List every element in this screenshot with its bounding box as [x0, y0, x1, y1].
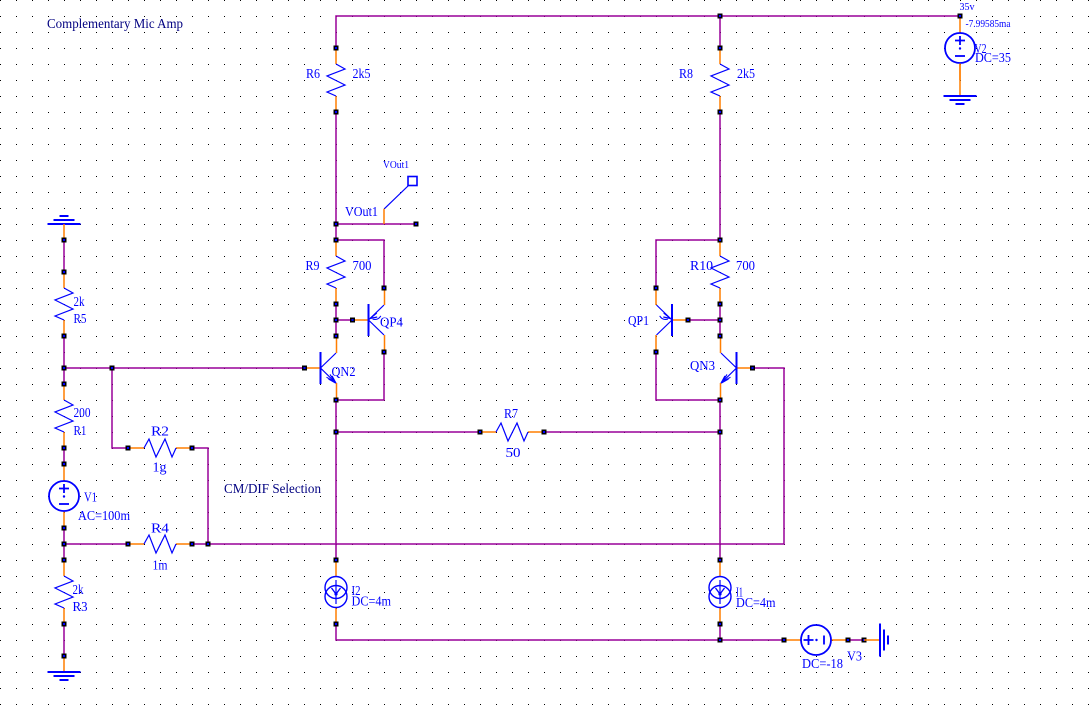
svg-text:R10: R10 — [690, 258, 713, 273]
pin R9.2 — [334, 302, 339, 307]
junction top bus / R8 — [718, 14, 723, 19]
pin R8.1 — [718, 46, 723, 51]
wire R8 bottom to R10 top — [719, 112, 721, 240]
svg-text:DC=4m: DC=4m — [352, 594, 392, 609]
wire bottom bus I2 to V3 — [336, 624, 784, 640]
resistor R7 body — [480, 423, 544, 441]
transistor QN2 (NPN) — [305, 336, 337, 400]
svg-text:R7: R7 — [504, 406, 518, 421]
junction VOut1 tap — [334, 222, 339, 227]
svg-text:QN2: QN2 — [332, 364, 356, 379]
svg-text:Complementary Mic Amp: Complementary Mic Amp — [47, 16, 183, 31]
pin VOut1 wire end — [414, 222, 419, 227]
wire QP1 base to node — [688, 319, 720, 321]
transistor QP4 (PNP) — [353, 288, 385, 352]
wire R3 bottom to ground — [63, 624, 65, 656]
pin R1.2 — [62, 446, 67, 451]
junction bottom bus / I1 — [718, 638, 723, 643]
junction R5/R1 node — [62, 366, 67, 371]
wire VOut1 tap — [336, 223, 416, 225]
pin ground right — [862, 638, 867, 643]
junction QP1 base node — [718, 318, 723, 323]
voltage source V2 symbol — [945, 16, 975, 80]
svg-text:VOut1: VOut1 — [345, 204, 378, 219]
svg-text:R6: R6 — [306, 66, 320, 81]
svg-text:R4: R4 — [151, 521, 169, 536]
wire R1 bottom to V1 plus — [63, 448, 65, 464]
svg-text:AC=100m: AC=100m — [78, 508, 130, 523]
pin QP1.E — [654, 286, 659, 291]
svg-text:1g: 1g — [153, 460, 167, 475]
voltage source V1 symbol — [49, 464, 79, 528]
resistor R4 body — [128, 535, 192, 553]
pin R4.2 — [190, 542, 195, 547]
wire R7 right to node B — [544, 431, 720, 433]
V2 lead to ground — [959, 64, 961, 97]
pin R9.1 — [334, 238, 339, 243]
pin R3.2 — [62, 622, 67, 627]
svg-text:R2: R2 — [151, 424, 169, 439]
svg-text:VOut1: VOut1 — [383, 160, 409, 171]
wire V3 minus to ground pin — [848, 639, 864, 641]
transistor QP1 (PNP) — [656, 288, 688, 352]
resistor R5 body — [55, 272, 73, 336]
wire R4 node to QN3 base — [208, 368, 784, 544]
pin QN2.B — [302, 366, 307, 371]
transistor QN3 (NPN) — [721, 336, 753, 400]
pin R7.1 — [478, 430, 483, 435]
junction top bus / V2 — [958, 14, 963, 19]
svg-text:2k: 2k — [73, 582, 84, 597]
junction R9 top — [334, 238, 339, 243]
pin V1.+ — [62, 462, 67, 467]
junction QN3 emitter node — [718, 398, 723, 403]
wire top bus to R8 top — [719, 16, 721, 48]
junction node B — [718, 430, 723, 435]
pin R7.2 — [542, 430, 547, 435]
junction V1/R4/R3 node — [62, 542, 67, 547]
junction R4/R2 node — [206, 542, 211, 547]
pin QP1.C — [654, 350, 659, 355]
wire R10-top node to QP1 emitter — [656, 240, 720, 288]
ground at V2 — [944, 96, 977, 104]
pin QN2.C — [334, 334, 339, 339]
pin QN3.B — [750, 366, 755, 371]
pin R3.1 — [62, 558, 67, 563]
wire x=336 R6 bottom to R9 top — [335, 112, 337, 240]
wire R2 right drop — [192, 448, 208, 544]
ground top-left lead — [63, 224, 65, 240]
svg-text:1m: 1m — [153, 558, 168, 573]
svg-text:700: 700 — [736, 258, 755, 273]
pin R2.2 — [190, 446, 195, 451]
wire R4 right to junction — [192, 543, 208, 545]
resistor R6 body — [327, 48, 345, 112]
svg-text:CM/DIF Selection: CM/DIF Selection — [224, 481, 321, 496]
pin R6.2 — [334, 110, 339, 115]
svg-text:QP1: QP1 — [628, 313, 649, 328]
svg-text:200: 200 — [74, 405, 91, 420]
pin V1.- — [62, 526, 67, 531]
svg-text:2k5: 2k5 — [737, 66, 755, 81]
svg-text:DC=-18: DC=-18 — [802, 656, 843, 671]
ground lead right of V3 — [864, 639, 880, 641]
svg-text:DC=35: DC=35 — [975, 50, 1011, 65]
pin V2.+ — [958, 14, 963, 19]
resistor R3 body — [55, 560, 73, 624]
junction R2 tap — [110, 366, 115, 371]
wire R9-top node to QP4 emitter — [336, 240, 384, 288]
pin R8.2 — [718, 110, 723, 115]
current source I1 symbol — [709, 560, 731, 624]
resistor R2 body — [128, 439, 192, 457]
pin V3.+ — [782, 638, 787, 643]
current source I2 symbol — [325, 560, 347, 624]
wire QN2 emitter node down to I2 — [335, 400, 337, 560]
wire QN3 emitter node down to I1 — [719, 400, 721, 560]
ground bottom left — [48, 672, 81, 680]
wire V1 minus to R3 top — [63, 528, 65, 560]
voltage source V3 symbol — [784, 625, 848, 655]
junction QP4 base node — [334, 318, 339, 323]
svg-text:R5: R5 — [74, 311, 87, 326]
wire V1 node to R4 left — [64, 543, 128, 545]
pin R5.2 — [62, 334, 67, 339]
pin QP4.B — [350, 318, 355, 323]
pin I1.2 — [718, 622, 723, 627]
pin QP1.B — [686, 318, 691, 323]
wire R9 bottom to QN2 collector — [335, 304, 337, 336]
pin I2.1 — [334, 558, 339, 563]
pin ground bottom-left — [62, 654, 67, 659]
pin R10.2 — [718, 302, 723, 307]
ground top left (inverted) — [48, 216, 81, 224]
svg-text:QN3: QN3 — [690, 358, 715, 373]
ground at V3 (rotated) — [880, 624, 888, 657]
wire top bus from R6 to V2 — [336, 16, 960, 48]
ground bottom-left lead — [63, 656, 65, 672]
svg-text:R1: R1 — [74, 423, 87, 438]
wire I1 minus to bottom bus — [719, 624, 721, 640]
svg-text:R3: R3 — [73, 599, 88, 614]
svg-text:R9: R9 — [306, 258, 320, 273]
pin R1.1 — [62, 382, 67, 387]
svg-text:QP4: QP4 — [380, 315, 403, 330]
svg-text:2k5: 2k5 — [353, 66, 371, 81]
svg-text:700: 700 — [353, 258, 372, 273]
wire R5 bottom to R1 top — [63, 336, 65, 384]
wire node to QP4 base — [336, 319, 352, 321]
wire QP4 collector to QN2 emitter node — [336, 352, 384, 400]
svg-text:DC=4m: DC=4m — [736, 595, 776, 610]
pin R4.1 — [126, 542, 131, 547]
svg-text:V3: V3 — [847, 649, 862, 664]
wire node A to R7 left — [336, 431, 480, 433]
pin I1.1 — [718, 558, 723, 563]
junction QN2 emitter node — [334, 398, 339, 403]
wire QP1 collector to QN3 emitter node — [656, 352, 720, 400]
pin ground top-left — [62, 238, 67, 243]
pin R6.1 — [334, 46, 339, 51]
pin V3.- — [846, 638, 851, 643]
junction node A — [334, 430, 339, 435]
svg-text:R8: R8 — [679, 66, 693, 81]
wire ground to R5 top — [63, 240, 65, 272]
resistor R10 body — [711, 240, 729, 304]
pin QN3.C — [718, 334, 723, 339]
pin QP4.C — [382, 350, 387, 355]
pin QP4.E — [382, 286, 387, 291]
wire R2 left drop — [112, 368, 128, 448]
resistor R1 body — [55, 384, 73, 448]
pin R2.1 — [126, 446, 131, 451]
pin R10.1 — [718, 238, 723, 243]
svg-text:V1: V1 — [84, 490, 97, 505]
node VOut1 output pin — [384, 177, 417, 225]
pin R5.1 — [62, 270, 67, 275]
wire QN2 base bus — [64, 367, 304, 369]
resistor R8 body — [711, 48, 729, 112]
resistor R9 body — [327, 240, 345, 304]
wire R10 bottom to QN3 collector — [719, 304, 721, 336]
pin I2.2 — [334, 622, 339, 627]
junction R10 top — [718, 238, 723, 243]
svg-text:2k: 2k — [74, 294, 85, 309]
svg-text:50: 50 — [506, 445, 521, 460]
svg-text:-7.99585ma: -7.99585ma — [966, 19, 1011, 30]
svg-text:35v: 35v — [960, 2, 976, 13]
